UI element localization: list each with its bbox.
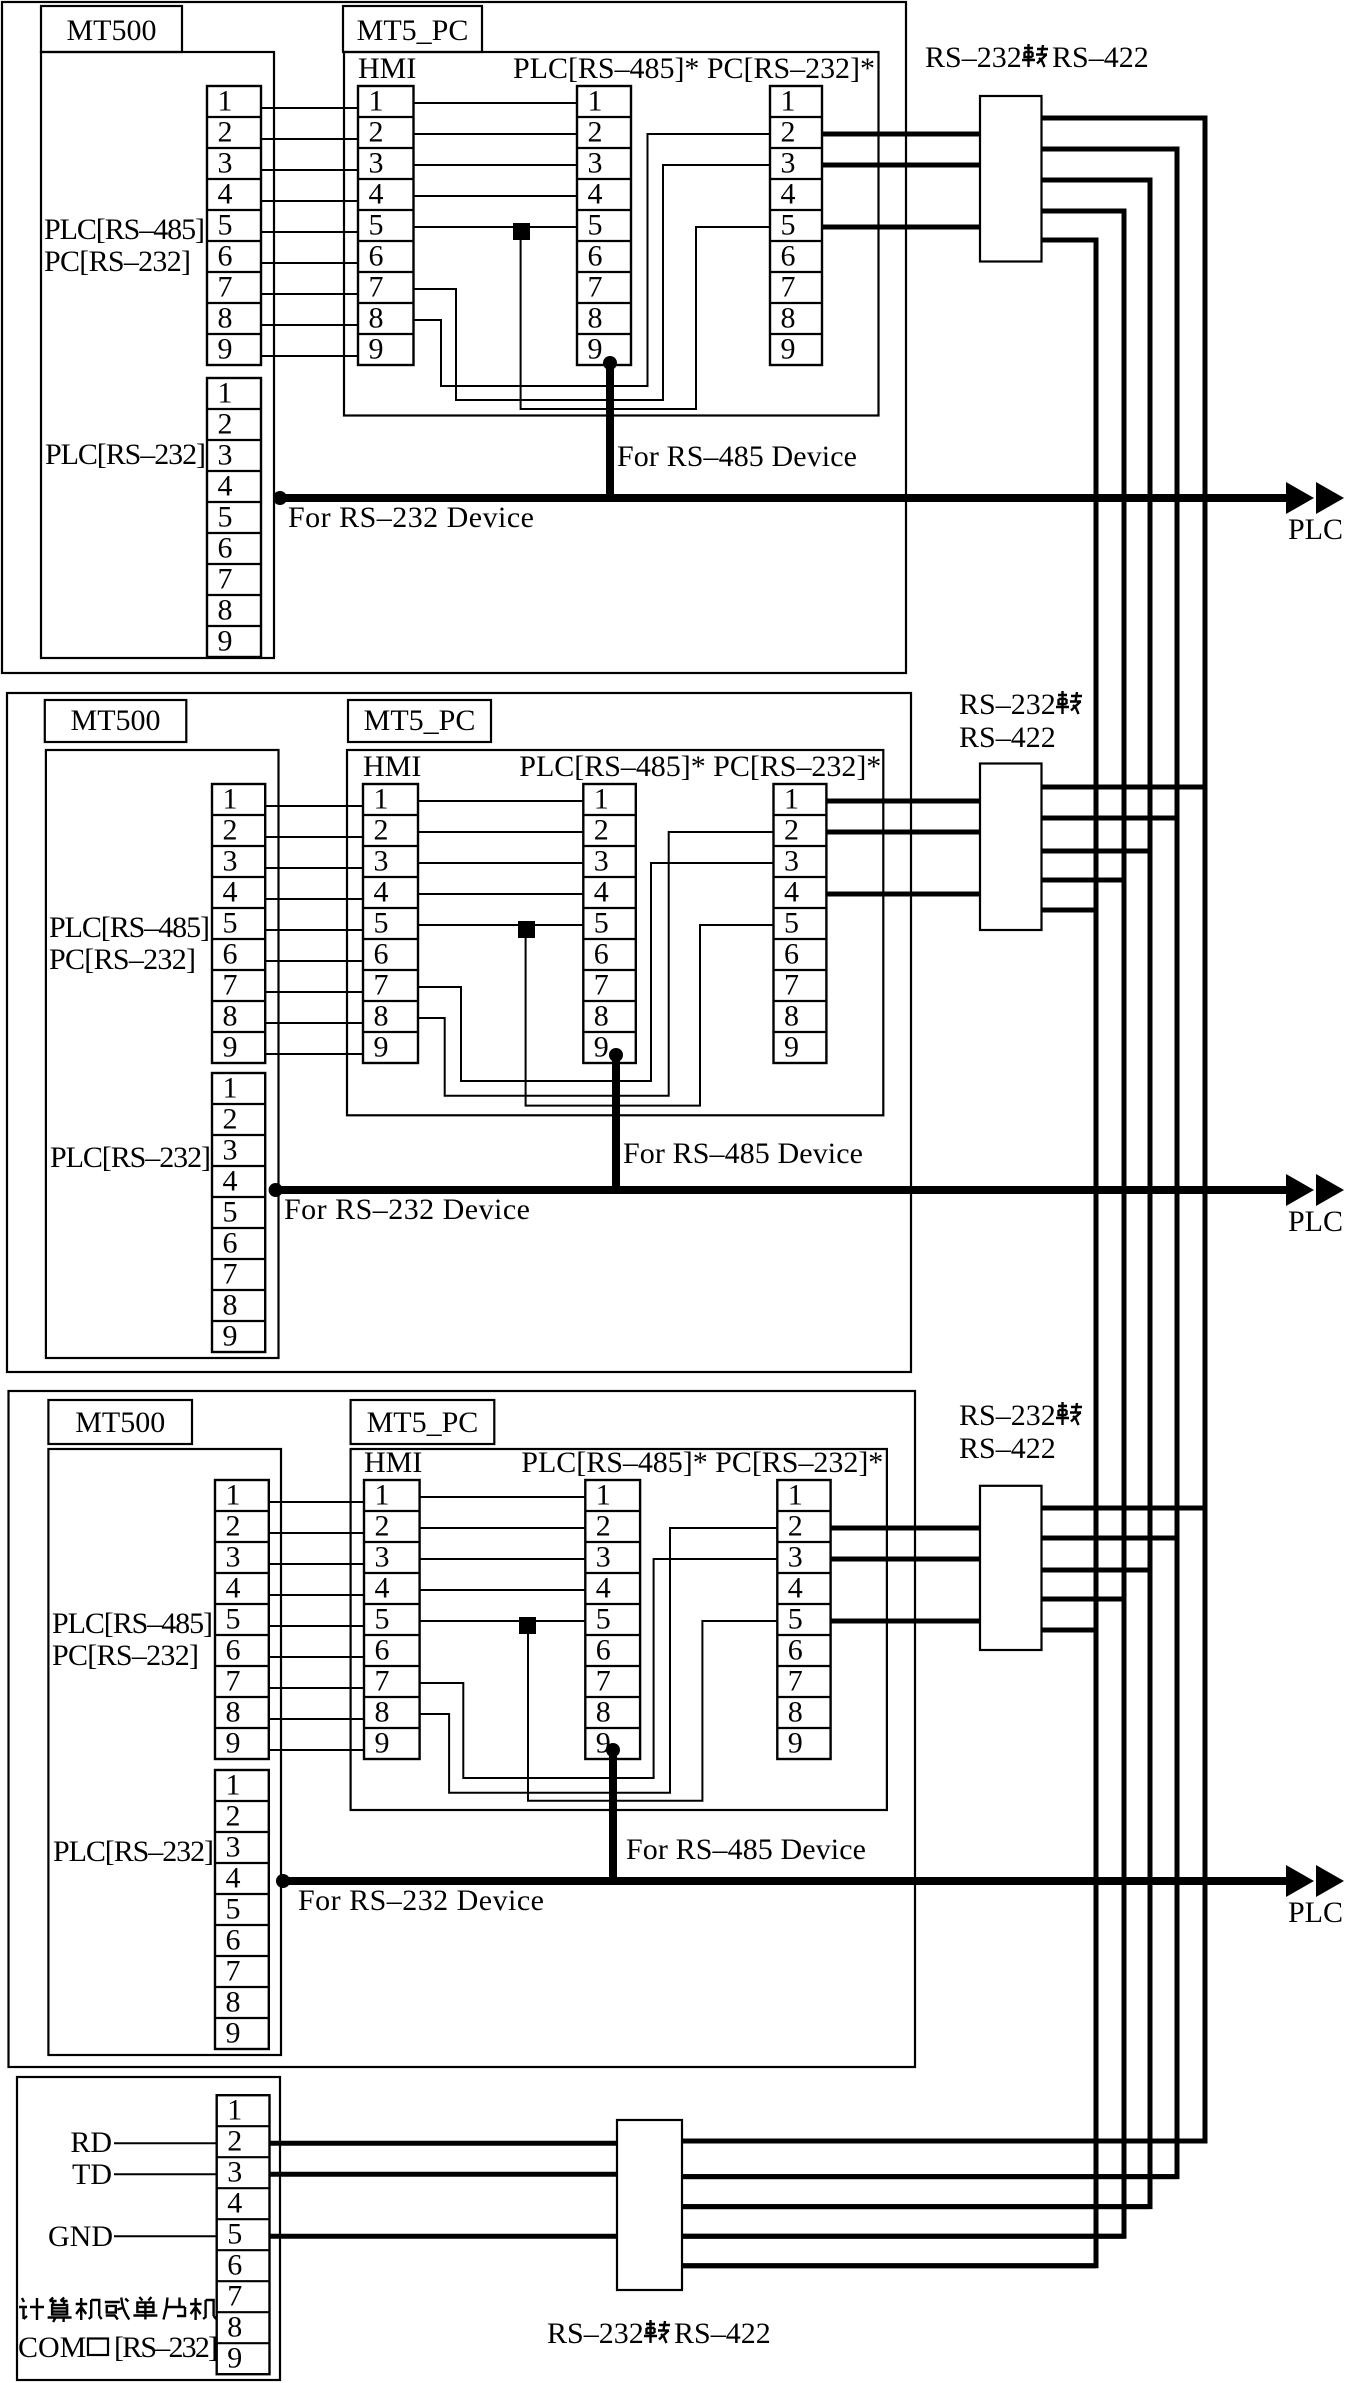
svg-text:9: 9 [226, 1727, 241, 1760]
wire MT500 pin 7 to HMI pin 7 (block 1) [261, 293, 358, 295]
wire MT500 pin 3 to HMI pin 3 (block 3) [269, 1563, 364, 1565]
svg-text:3: 3 [788, 1541, 803, 1574]
svg-text:6: 6 [788, 1634, 803, 1667]
svg-text:6: 6 [223, 938, 238, 971]
svg-text:9: 9 [588, 333, 603, 366]
MT500 device box (block 3) [48, 1449, 281, 2055]
svg-text:2: 2 [781, 116, 796, 149]
RS-422 bus wire 2: converter 1 to converter 4 [682, 149, 1177, 2177]
svg-text:PLC: PLC [1288, 1205, 1343, 1238]
wire PC[RS-232] pin 2 to RS-232/RS-422 converter (block 2) [826, 830, 980, 835]
connector body HMI side connector (block 2) [363, 784, 418, 1063]
svg-text:MT5_PC: MT5_PC [367, 1406, 479, 1439]
wire MT500 pin 5 to HMI pin 5 (block 2) [265, 929, 363, 931]
wire HMI pin 3 to PLC[RS-485] pin 3 (block 2) [418, 862, 583, 864]
svg-text:8: 8 [226, 1986, 241, 2019]
svg-text:7: 7 [596, 1665, 611, 1698]
svg-text:2: 2 [784, 814, 799, 847]
svg-text:PLC: PLC [1288, 513, 1343, 546]
svg-text:4: 4 [594, 876, 609, 909]
wire HMI pin 2 to PLC[RS-485] pin 2 (block 1) [414, 133, 578, 135]
svg-text:6: 6 [375, 1634, 390, 1667]
junction dot at PLC[RS-485] pin 9 (block 2) [609, 1048, 623, 1062]
connector body MT500 COM2 PLC[RS-232] connector (block 3) [215, 1770, 269, 2049]
svg-text:RS–422: RS–422 [959, 721, 1056, 754]
wire converter 2 output 1 to RS-422 bus line 1 [1042, 785, 1206, 790]
svg-text:9: 9 [223, 1031, 238, 1064]
svg-text:4: 4 [226, 1862, 241, 1895]
wire MT500 pin 4 to HMI pin 4 (block 3) [269, 1594, 364, 1596]
svg-text:3: 3 [588, 147, 603, 180]
wire HMI pin 1 to PLC[RS-485] pin 1 (block 2) [418, 800, 583, 802]
wire PC[RS-232] pin 2 to RS-232/RS-422 converter (block 1) [822, 132, 980, 137]
pin numbers 1-9 of HMI side connector (block 3) [375, 1479, 390, 1760]
svg-text:4: 4 [596, 1572, 611, 1605]
wire converter 3 output 2 to RS-422 bus line 2 [1042, 1536, 1178, 1541]
svg-text:3: 3 [218, 439, 233, 472]
wire termination block to PC[RS-232] pin 5 (block 1) [521, 227, 770, 409]
svg-text:6: 6 [588, 240, 603, 273]
svg-text:5: 5 [218, 501, 233, 534]
svg-text:8: 8 [369, 302, 384, 335]
HMI station block 3 outer box [9, 1391, 916, 2067]
RS-485 device drop wire (block 2) [612, 1055, 620, 1190]
svg-text:7: 7 [375, 1665, 390, 1698]
wire MT500 pin 1 to HMI pin 1 (block 3) [269, 1501, 364, 1503]
connector body PC[RS-232]* connector (block 3) [777, 1480, 830, 1759]
wire MT500 pin 4 to HMI pin 4 (block 1) [261, 200, 358, 202]
svg-text:7: 7 [226, 1665, 241, 1698]
wire PC[RS-232] pin 2 to RS-232/RS-422 converter (block 3) [831, 1526, 980, 1531]
svg-text:3: 3 [375, 1541, 390, 1574]
svg-text:9: 9 [369, 333, 384, 366]
svg-text:8: 8 [588, 302, 603, 335]
svg-text:5: 5 [226, 1893, 241, 1926]
wire MT500 pin 1 to HMI pin 1 (block 1) [261, 107, 358, 109]
arrowhead 1 PLC line (block 3) [1286, 1865, 1314, 1897]
wire converter 3 output 5 to RS-422 bus line 5 [1042, 1628, 1097, 1633]
svg-text:3: 3 [369, 147, 384, 180]
svg-text:RS–422: RS–422 [1052, 41, 1149, 74]
svg-text:5: 5 [226, 1603, 241, 1636]
connector body PC[RS-232]* connector (block 1) [770, 86, 822, 365]
svg-text:9: 9 [784, 1031, 799, 1064]
wire HMI pin 5 to PLC[RS-485] pin 5 (block 2) [418, 924, 583, 926]
svg-text:7: 7 [226, 1955, 241, 1988]
svg-text:3: 3 [226, 1541, 241, 1574]
svg-text:MT5_PC: MT5_PC [357, 14, 469, 47]
wire MT500 pin 7 to HMI pin 7 (block 3) [269, 1687, 364, 1689]
arrowhead 2 PLC line (block 3) [1316, 1865, 1344, 1897]
svg-text:4: 4 [788, 1572, 803, 1605]
svg-text:9: 9 [223, 1320, 238, 1353]
pin numbers 1-9 of MT500 COM2 PLC[RS-232] connector (block 2) [223, 1072, 238, 1353]
connector body MT500 COM [PLC RS-485 / PC RS-232] (block 1) [207, 86, 261, 365]
svg-text:PC[RS–232]: PC[RS–232] [44, 245, 191, 278]
wire HMI pin 4 to PLC[RS-485] pin 4 (block 2) [418, 893, 583, 895]
pin numbers 1-9 of MT500 COM [PLC RS-485 / PC RS-232] (block 3) [226, 1479, 241, 1760]
wire TD to pin 3 [114, 2173, 217, 2175]
svg-text:[RS–232]: [RS–232] [114, 2331, 218, 2364]
wire bottom converter output 5 to RS-422 bus line 5 [682, 2263, 1096, 2268]
RS-422 bus wire 4: converter 1 to converter 4 [682, 211, 1124, 2236]
pin numbers 1-9 of PC[RS-232]* connector (block 2) [784, 783, 799, 1064]
svg-text:PLC[RS–485]* PC[RS–232]*: PLC[RS–485]* PC[RS–232]* [521, 1446, 883, 1479]
svg-text:HMI: HMI [364, 1446, 422, 1479]
svg-text:8: 8 [227, 2311, 242, 2344]
wire COM pin 5 to bottom converter [270, 2234, 618, 2239]
svg-text:2: 2 [218, 116, 233, 149]
pin numbers 1-9 of MT500 COM2 PLC[RS-232] connector (block 1) [218, 377, 233, 658]
svg-text:9: 9 [218, 333, 233, 366]
wire converter 2 output 2 to RS-422 bus line 2 [1042, 816, 1178, 821]
svg-text:2: 2 [226, 1510, 241, 1543]
wire MT500 pin 8 to HMI pin 8 (block 1) [261, 324, 358, 326]
pin numbers 1-9 of MT500 COM2 PLC[RS-232] connector (block 3) [226, 1769, 241, 2050]
wire PC[RS-232] pin 1 to RS-232/RS-422 converter (block 2) [826, 799, 980, 804]
RS-232 to RS-422 converter box (block 1) [980, 96, 1042, 262]
svg-text:PLC[RS–232]: PLC[RS–232] [45, 438, 206, 471]
svg-text:1: 1 [226, 1769, 241, 1802]
svg-text:5: 5 [218, 209, 233, 242]
svg-text:8: 8 [781, 302, 796, 335]
wire HMI pin 2 to PLC[RS-485] pin 2 (block 2) [418, 831, 583, 833]
wire MT500 pin 6 to HMI pin 6 (block 2) [265, 960, 363, 962]
svg-text:7: 7 [588, 271, 603, 304]
svg-text:For RS–485 Device: For RS–485 Device [617, 440, 857, 473]
svg-text:2: 2 [227, 2125, 242, 2158]
wire MT500 pin 5 to HMI pin 5 (block 3) [269, 1625, 364, 1627]
svg-text:COM: COM [18, 2331, 86, 2364]
RS-422 bus wire 3: converter 1 to converter 4 [682, 180, 1150, 2207]
wire HMI pin 5 to PLC[RS-485] pin 5 (block 1) [414, 226, 578, 228]
svg-text:7: 7 [218, 563, 233, 596]
wire HMI pin 1 to PLC[RS-485] pin 1 (block 1) [414, 102, 578, 104]
svg-text:2: 2 [788, 1510, 803, 1543]
termination block on HMI pin 5 wire (block 3) [519, 1617, 536, 1634]
connector body PLC[RS-485]* connector (block 2) [583, 784, 636, 1063]
RS-232 device line to PLC (block 3) [283, 1877, 1289, 1885]
svg-text:1: 1 [788, 1479, 803, 1512]
RS-232 device line to PLC (block 1) [280, 494, 1289, 502]
MT5_PC adapter box (block 1) [344, 52, 879, 416]
connector body MT500 COM [PLC RS-485 / PC RS-232] (block 2) [212, 784, 265, 1063]
svg-text:6: 6 [223, 1227, 238, 1260]
junction dot at PLC[RS-485] pin 9 (block 1) [603, 356, 617, 370]
svg-text:7: 7 [223, 1258, 238, 1291]
svg-text:7: 7 [781, 271, 796, 304]
wire PC[RS-232] pin 3 to RS-232/RS-422 converter (block 1) [822, 163, 980, 168]
svg-text:4: 4 [375, 1572, 390, 1605]
svg-text:PLC[RS–485]: PLC[RS–485] [52, 1607, 213, 1640]
connector body PC[RS-232]* connector (block 2) [774, 784, 827, 1063]
wire termination block to PC[RS-232] pin 5 (block 3) [528, 1621, 777, 1801]
wire MT500 pin 8 to HMI pin 8 (block 2) [265, 1022, 363, 1024]
svg-text:6: 6 [227, 2249, 242, 2282]
svg-text:6: 6 [594, 938, 609, 971]
svg-text:MT500: MT500 [75, 1406, 165, 1439]
svg-text:7: 7 [594, 969, 609, 1002]
svg-text:9: 9 [218, 625, 233, 658]
wire MT500 pin 2 to HMI pin 2 (block 2) [265, 836, 363, 838]
RS-232 to RS-422 converter box (bottom) [617, 2120, 682, 2290]
svg-text:3: 3 [374, 845, 389, 878]
wire MT500 pin 2 to HMI pin 2 (block 1) [261, 138, 358, 140]
connector body MT500 COM2 PLC[RS-232] connector (block 1) [207, 378, 261, 657]
svg-text:5: 5 [596, 1603, 611, 1636]
wire MT500 pin 4 to HMI pin 4 (block 2) [265, 898, 363, 900]
wire HMI pin 1 to PLC[RS-485] pin 1 (block 3) [420, 1496, 586, 1498]
svg-text:7: 7 [784, 969, 799, 1002]
svg-text:4: 4 [781, 178, 796, 211]
svg-text:PLC[RS–485]: PLC[RS–485] [44, 213, 205, 246]
svg-text:4: 4 [784, 876, 799, 909]
MT500 device box (block 2) [46, 750, 279, 1358]
MT500 device box (block 1) [41, 52, 274, 658]
wire HMI pin 5 to PLC[RS-485] pin 5 (block 3) [420, 1620, 586, 1622]
MT500 label box (block 1) [41, 6, 182, 52]
svg-text:GND: GND [48, 2220, 113, 2253]
svg-text:4: 4 [369, 178, 384, 211]
wire MT500 pin 8 to HMI pin 8 (block 3) [269, 1718, 364, 1720]
svg-text:9: 9 [226, 2017, 241, 2050]
wire COM pin 3 to bottom converter [270, 2172, 618, 2177]
svg-text:1: 1 [375, 1479, 390, 1512]
wire MT500 pin 2 to HMI pin 2 (block 3) [269, 1532, 364, 1534]
svg-text:1: 1 [218, 85, 233, 118]
svg-text:5: 5 [588, 209, 603, 242]
svg-text:1: 1 [223, 1072, 238, 1105]
svg-text:RS–422: RS–422 [959, 1432, 1056, 1465]
svg-text:8: 8 [594, 1000, 609, 1033]
RS-422 bus wire 1: converter 1 to converter 4 [682, 118, 1205, 2141]
svg-text:1: 1 [781, 85, 796, 118]
termination block on HMI pin 5 wire (block 1) [513, 223, 530, 240]
MT5_PC label box (block 2) [348, 700, 491, 742]
wire MT500 pin 6 to HMI pin 6 (block 1) [261, 262, 358, 264]
svg-text:4: 4 [218, 470, 233, 503]
pin numbers 1-9 of HMI side connector (block 2) [374, 783, 389, 1064]
wire MT500 pin 3 to HMI pin 3 (block 2) [265, 867, 363, 869]
svg-text:For RS–232 Device: For RS–232 Device [298, 1884, 544, 1917]
wire HMI pin 3 to PLC[RS-485] pin 3 (block 3) [420, 1558, 586, 1560]
pin numbers 1-9 of PC[RS-232]* connector (block 3) [788, 1479, 803, 1760]
svg-text:6: 6 [374, 938, 389, 971]
RS-422 bus wire 5: converter 1 to converter 4 [682, 240, 1096, 2266]
svg-text:HMI: HMI [363, 750, 421, 783]
wire HMI pin 7 to PC[RS-232] pin 3 (block 1) [414, 165, 771, 400]
svg-text:For RS–485 Device: For RS–485 Device [623, 1137, 863, 1170]
wire HMI pin 8 to PC[RS-232] pin 2 (block 1) [414, 134, 771, 386]
pin numbers 1-9 of computer COM[RS-232] connector [227, 2094, 242, 2375]
svg-text:9: 9 [781, 333, 796, 366]
svg-text:2: 2 [374, 814, 389, 847]
svg-text:7: 7 [788, 1665, 803, 1698]
svg-text:5: 5 [781, 209, 796, 242]
RS-485 device drop wire (block 1) [606, 363, 614, 498]
svg-text:3: 3 [784, 845, 799, 878]
arrowhead 2 PLC line (block 1) [1316, 482, 1344, 514]
wire HMI pin 4 to PLC[RS-485] pin 4 (block 1) [414, 195, 578, 197]
svg-text:1: 1 [223, 783, 238, 816]
svg-text:RS–422: RS–422 [674, 2317, 771, 2350]
junction dot at PLC[RS-485] pin 9 (block 3) [606, 1743, 620, 1757]
wire MT500 pin 9 to HMI pin 9 (block 1) [261, 355, 358, 357]
wire converter 2 output 3 to RS-422 bus line 3 [1042, 849, 1151, 854]
svg-text:6: 6 [218, 532, 233, 565]
wire termination block to PC[RS-232] pin 5 (block 2) [526, 925, 774, 1106]
wire converter 2 output 5 to RS-422 bus line 5 [1042, 908, 1097, 913]
wire bottom converter output 2 to RS-422 bus line 2 [682, 2174, 1177, 2179]
svg-text:3: 3 [594, 845, 609, 878]
wire bottom converter output 3 to RS-422 bus line 3 [682, 2204, 1150, 2209]
wire HMI pin 2 to PLC[RS-485] pin 2 (block 3) [420, 1527, 586, 1529]
wire RD to pin 2 [114, 2142, 217, 2144]
wire HMI pin 7 to PC[RS-232] pin 3 (block 3) [420, 1559, 778, 1778]
MT500 label box (block 3) [48, 1400, 192, 1444]
wire MT500 pin 9 to HMI pin 9 (block 2) [265, 1053, 363, 1055]
wire HMI pin 3 to PLC[RS-485] pin 3 (block 1) [414, 164, 578, 166]
svg-text:4: 4 [223, 876, 238, 909]
svg-text:6: 6 [218, 240, 233, 273]
svg-text:HMI: HMI [358, 52, 416, 85]
pin numbers 1-9 of PC[RS-232]* connector (block 1) [781, 85, 796, 366]
wire bottom converter output 4 to RS-422 bus line 4 [682, 2234, 1124, 2239]
svg-text:6: 6 [596, 1634, 611, 1667]
RS-485 device drop wire (block 3) [609, 1750, 617, 1881]
svg-text:For RS–485 Device: For RS–485 Device [626, 1833, 866, 1866]
svg-text:8: 8 [226, 1696, 241, 1729]
wire MT500 pin 5 to HMI pin 5 (block 1) [261, 231, 358, 233]
svg-text:6: 6 [784, 938, 799, 971]
svg-text:4: 4 [227, 2187, 242, 2220]
wire MT500 pin 9 to HMI pin 9 (block 3) [269, 1749, 364, 1751]
svg-text:7: 7 [227, 2280, 242, 2313]
svg-text:8: 8 [374, 1000, 389, 1033]
svg-text:2: 2 [223, 814, 238, 847]
pin numbers 1-9 of MT500 COM [PLC RS-485 / PC RS-232] (block 2) [223, 783, 238, 1064]
svg-text:2: 2 [226, 1800, 241, 1833]
svg-text:1: 1 [374, 783, 389, 816]
wire PC[RS-232] pin 5 to RS-232/RS-422 converter (block 1) [822, 225, 980, 230]
svg-text:5: 5 [784, 907, 799, 940]
svg-text:9: 9 [227, 2342, 242, 2375]
svg-text:7: 7 [223, 969, 238, 1002]
svg-text:MT500: MT500 [67, 14, 157, 47]
svg-text:RS–232: RS–232 [959, 688, 1056, 721]
svg-text:PLC[RS–232]: PLC[RS–232] [53, 1835, 214, 1868]
svg-text:2: 2 [369, 116, 384, 149]
svg-text:4: 4 [226, 1572, 241, 1605]
svg-text:6: 6 [369, 240, 384, 273]
svg-text:1: 1 [784, 783, 799, 816]
svg-text:8: 8 [788, 1696, 803, 1729]
svg-text:2: 2 [375, 1510, 390, 1543]
svg-text:1: 1 [596, 1479, 611, 1512]
svg-text:3: 3 [218, 147, 233, 180]
connector body PLC[RS-485]* connector (block 3) [585, 1480, 640, 1759]
junction dot on RS-232 device line (block 3) [276, 1874, 290, 1888]
svg-text:2: 2 [596, 1510, 611, 1543]
RS-232 device line to PLC (block 2) [276, 1186, 1289, 1194]
svg-text:MT500: MT500 [71, 704, 161, 737]
svg-text:8: 8 [784, 1000, 799, 1033]
RS-232 to RS-422 converter box (block 3) [980, 1486, 1042, 1650]
wire MT500 pin 1 to HMI pin 1 (block 2) [265, 805, 363, 807]
connector body MT500 COM2 PLC[RS-232] connector (block 2) [212, 1073, 265, 1352]
svg-text:1: 1 [594, 783, 609, 816]
termination block on HMI pin 5 wire (block 2) [518, 921, 535, 938]
wire MT500 pin 3 to HMI pin 3 (block 1) [261, 169, 358, 171]
svg-text:2: 2 [218, 408, 233, 441]
svg-text:8: 8 [218, 594, 233, 627]
connector body HMI side connector (block 3) [364, 1480, 420, 1759]
svg-text:3: 3 [596, 1541, 611, 1574]
svg-text:4: 4 [218, 178, 233, 211]
svg-text:5: 5 [227, 2218, 242, 2251]
svg-text:8: 8 [218, 302, 233, 335]
svg-text:For RS–232 Device: For RS–232 Device [284, 1193, 530, 1226]
pin numbers 1-9 of PLC[RS-485]* connector (block 1) [588, 85, 603, 366]
wire MT500 pin 7 to HMI pin 7 (block 2) [265, 991, 363, 993]
svg-text:RD: RD [70, 2126, 112, 2159]
junction dot on RS-232 device line (block 1) [273, 491, 287, 505]
svg-text:5: 5 [375, 1603, 390, 1636]
pin numbers 1-9 of MT500 COM [PLC RS-485 / PC RS-232] (block 1) [218, 85, 233, 366]
wire converter 2 output 4 to RS-422 bus line 4 [1042, 878, 1125, 883]
svg-text:1: 1 [226, 1479, 241, 1512]
svg-text:2: 2 [223, 1103, 238, 1136]
svg-text:PLC[RS–485]: PLC[RS–485] [49, 911, 210, 944]
wire HMI pin 7 to PC[RS-232] pin 3 (block 2) [418, 863, 774, 1081]
wire COM pin 2 to bottom converter [270, 2141, 618, 2146]
junction dot on RS-232 device line (block 2) [269, 1183, 283, 1197]
MT5_PC label box (block 3) [351, 1400, 495, 1444]
svg-text:5: 5 [369, 209, 384, 242]
svg-text:PLC[RS–485]* PC[RS–232]*: PLC[RS–485]* PC[RS–232]* [513, 52, 875, 85]
wire bottom converter output 1 to RS-422 bus line 1 [682, 2139, 1205, 2144]
svg-text:5: 5 [223, 1196, 238, 1229]
svg-text:6: 6 [781, 240, 796, 273]
label computer (Chinese): ji suan ji huo dan pian ji [19, 2298, 44, 2320]
wire PC[RS-232] pin 4 to RS-232/RS-422 converter (block 2) [826, 892, 980, 897]
svg-text:8: 8 [596, 1696, 611, 1729]
HMI station block 2 outer box [7, 693, 911, 1372]
svg-text:8: 8 [223, 1000, 238, 1033]
svg-text:2: 2 [588, 116, 603, 149]
svg-text:1: 1 [588, 85, 603, 118]
svg-text:RS–232: RS–232 [547, 2317, 644, 2350]
svg-text:9: 9 [375, 1727, 390, 1760]
svg-text:9: 9 [788, 1727, 803, 1760]
pin numbers 1-9 of HMI side connector (block 1) [369, 85, 384, 366]
wire HMI pin 4 to PLC[RS-485] pin 4 (block 3) [420, 1589, 586, 1591]
computer COM port block outer box [17, 2077, 280, 2380]
svg-text:8: 8 [375, 1696, 390, 1729]
svg-text:4: 4 [223, 1165, 238, 1198]
svg-text:7: 7 [369, 271, 384, 304]
svg-text:PC[RS–232]: PC[RS–232] [49, 943, 196, 976]
wire converter 3 output 1 to RS-422 bus line 1 [1042, 1506, 1206, 1511]
wire MT500 pin 6 to HMI pin 6 (block 3) [269, 1656, 364, 1658]
svg-text:5: 5 [788, 1603, 803, 1636]
svg-text:1: 1 [227, 2094, 242, 2127]
pin numbers 1-9 of PLC[RS-485]* connector (block 2) [594, 783, 609, 1064]
MT5_PC adapter box (block 3) [351, 1449, 887, 1810]
svg-text:6: 6 [226, 1924, 241, 1957]
svg-text:9: 9 [374, 1031, 389, 1064]
arrowhead 1 PLC line (block 2) [1286, 1174, 1314, 1206]
